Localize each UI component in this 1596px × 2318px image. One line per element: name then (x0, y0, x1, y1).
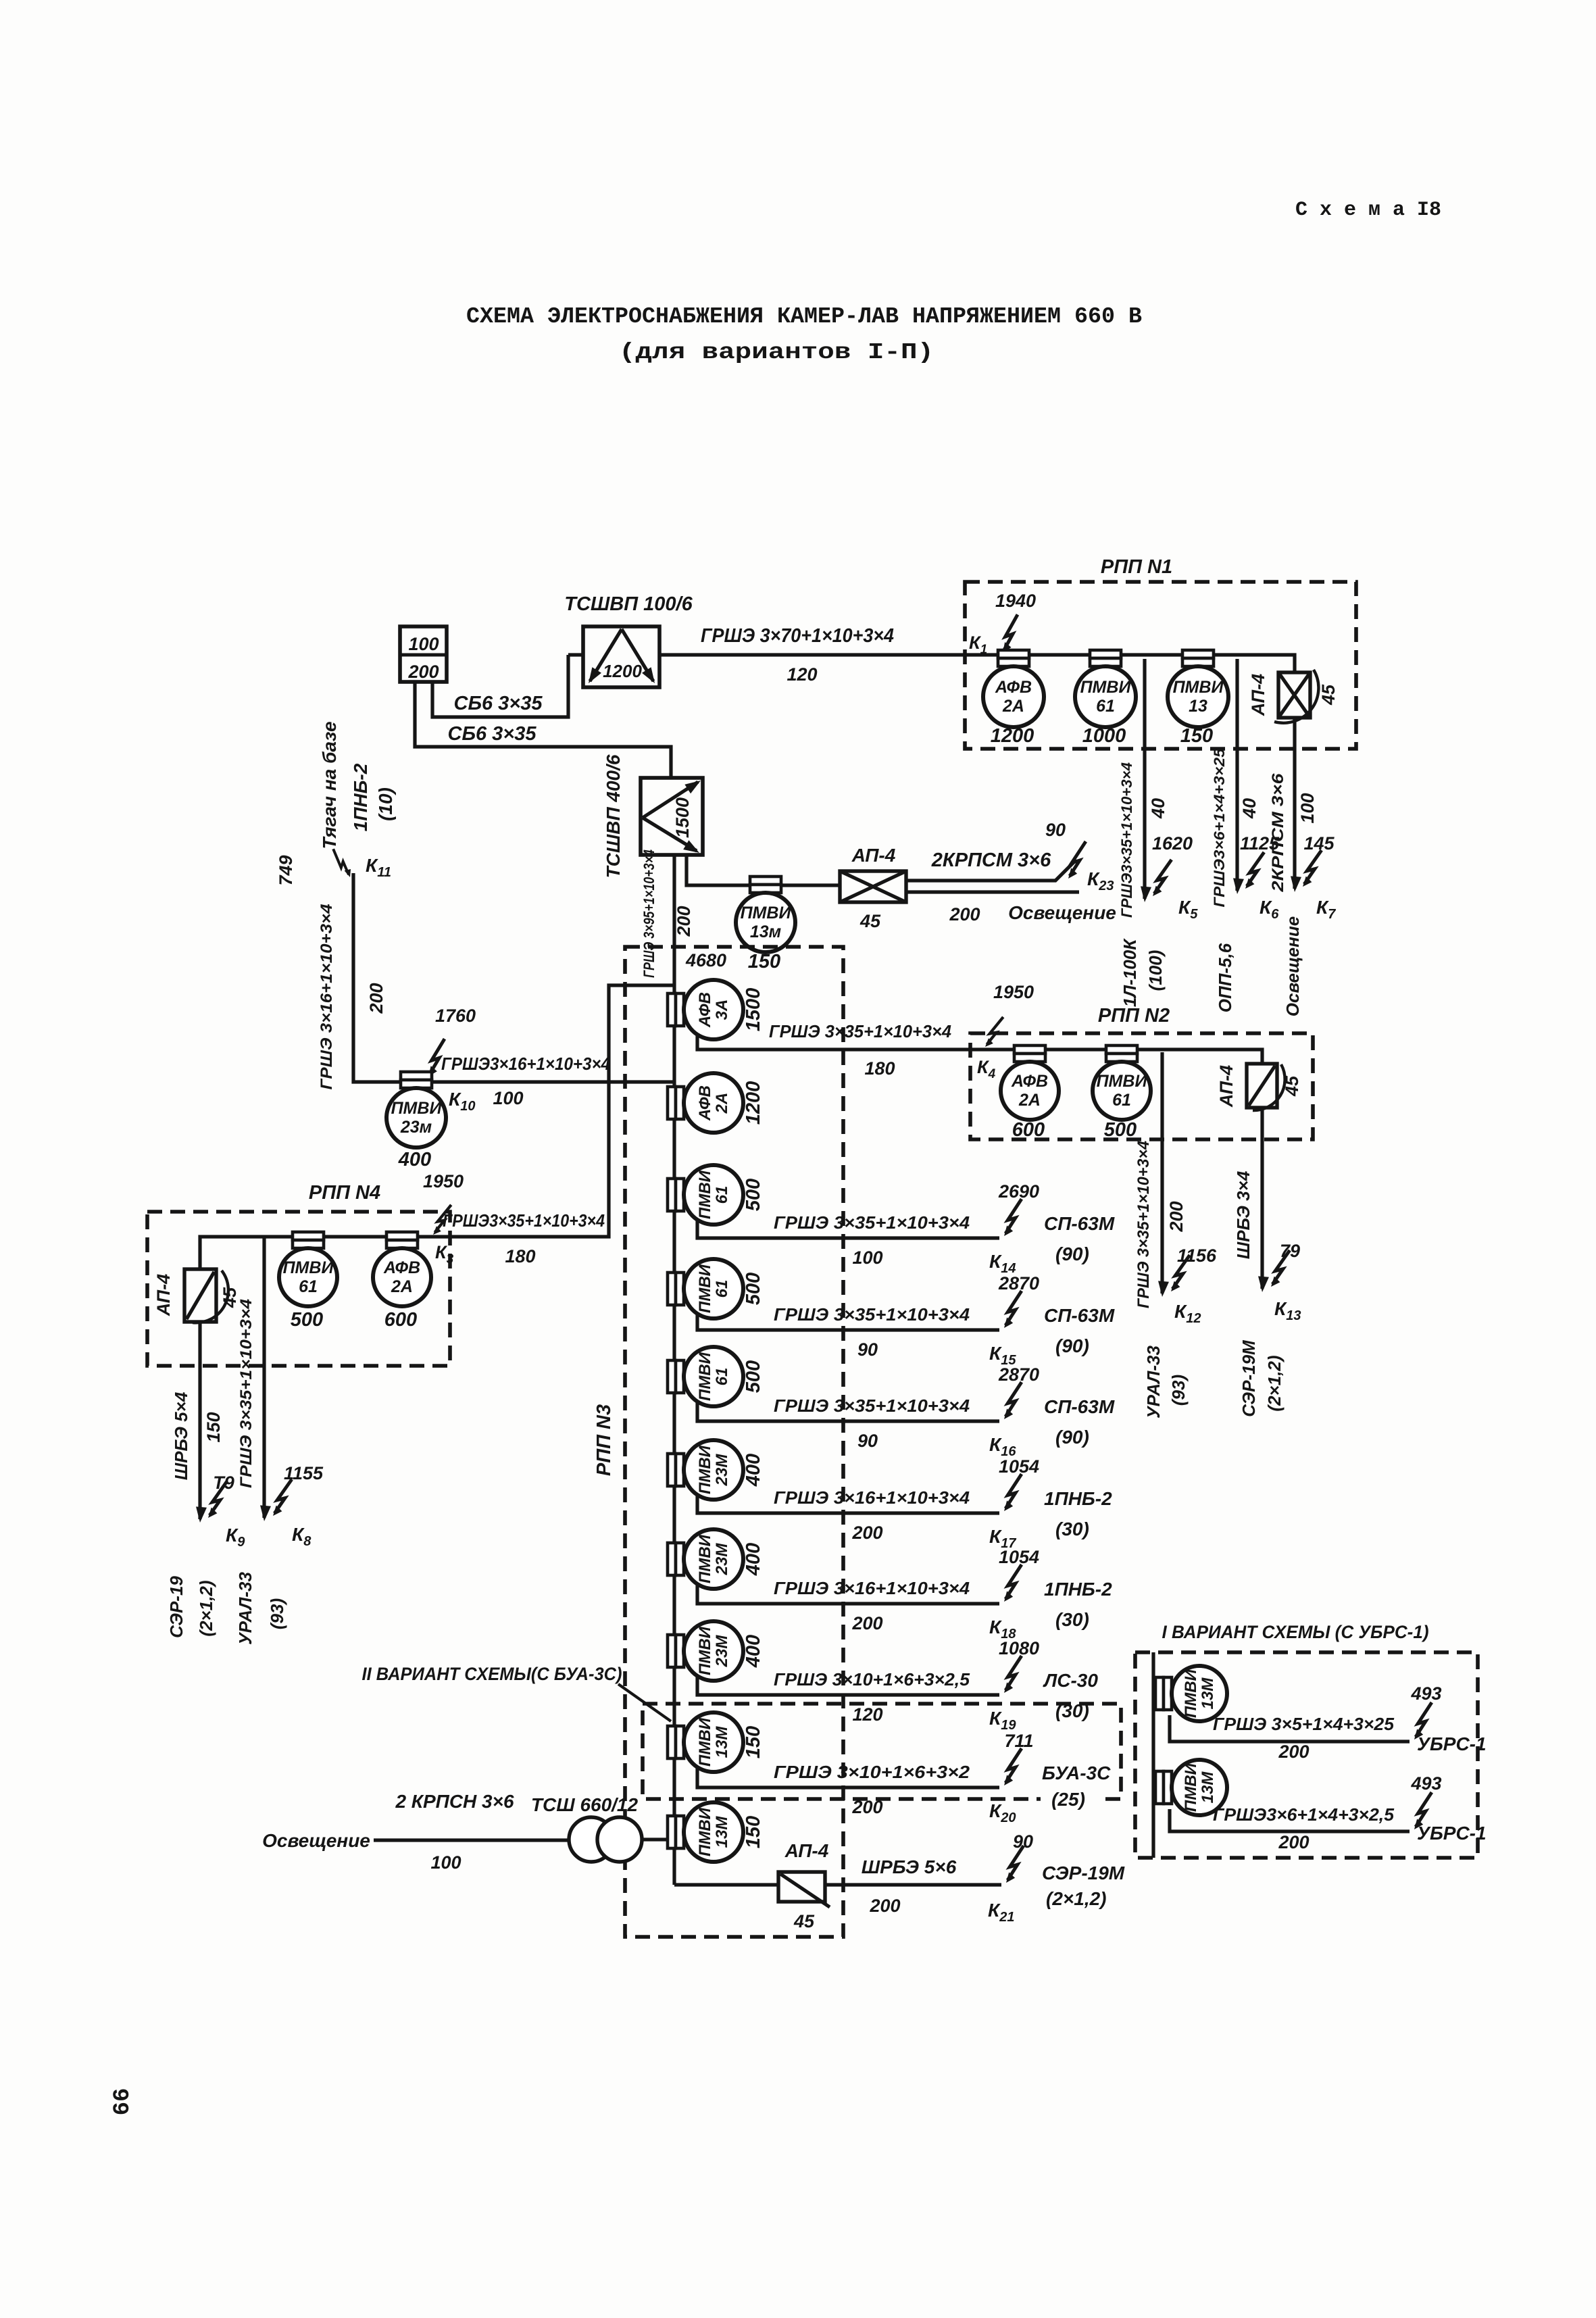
svg-text:ПМВИ: ПМВИ (696, 1807, 714, 1856)
switch ПМВИ 13 (РПП N1) (1182, 650, 1214, 658)
svg-text:(25): (25) (1051, 1789, 1085, 1810)
wire ГРШЭ 3х70 (T1 to РПП N1) (659, 653, 999, 656)
switch АФВ 3А (РПП N3 bus) (668, 993, 676, 1026)
wire СБ6 3х35 upper (box to T1) (568, 653, 583, 656)
svg-text:АП-4: АП-4 (851, 845, 896, 866)
svg-text:ГРШЭ 3×35+1×10+3×4: ГРШЭ 3×35+1×10+3×4 (774, 1212, 970, 1233)
svg-text:180: 180 (864, 1058, 895, 1079)
svg-text:ГРШЭ3×35+1×10+3×4: ГРШЭ3×35+1×10+3×4 (443, 1210, 605, 1231)
svg-text:1054: 1054 (999, 1456, 1039, 1477)
svg-text:400: 400 (743, 1543, 764, 1576)
svg-text:ГРШЭ 3×16+1×10+3×4: ГРШЭ 3×16+1×10+3×4 (774, 1487, 970, 1508)
svg-text:СЭР-19М: СЭР-19М (1239, 1339, 1259, 1417)
svg-text:РПП N3: РПП N3 (593, 1404, 615, 1476)
РПП N4 dashed enclosure (147, 1212, 450, 1366)
svg-text:ГРШЭ 3×35+1×10+3×4: ГРШЭ 3×35+1×10+3×4 (1134, 1141, 1153, 1308)
svg-text:200: 200 (851, 1613, 882, 1633)
svg-text:ГРШЭ 3×16+1×10+3×4: ГРШЭ 3×16+1×10+3×4 (318, 904, 336, 1090)
switch ПМВИ 13М a (РПП N3 bus) (668, 1726, 676, 1758)
wire feeder К5 down from ПМВИ 61 (1143, 659, 1146, 899)
РПП N3 dashed enclosure (625, 947, 843, 1937)
svg-text:90: 90 (1045, 820, 1066, 840)
svg-text:ГРШЭ 3×35+1×10+3×4: ГРШЭ 3×35+1×10+3×4 (774, 1396, 970, 1416)
svg-text:150: 150 (748, 951, 780, 972)
svg-text:180: 180 (505, 1246, 535, 1266)
wire feeder К18 from ПМВИ 23М b (697, 1583, 999, 1604)
svg-text:2А: 2А (1018, 1091, 1041, 1110)
svg-text:АФВ: АФВ (696, 992, 714, 1028)
switch ПМВИ 61 c (РПП N3 bus) (668, 1360, 676, 1393)
switch ПМВИ 13М (at T2) (750, 877, 781, 885)
svg-text:1500: 1500 (672, 797, 693, 838)
svg-text:СП-63М: СП-63М (1044, 1396, 1115, 1417)
svg-text:ТСШВП 400/6: ТСШВП 400/6 (603, 754, 624, 878)
wire К3 feeder РПП N4 to РПП N3 bus (417, 985, 673, 1237)
wire feeder К15 from ПМВИ 61 b (697, 1313, 999, 1330)
switch ПМВИ 13М b (РПП N3 bus) (668, 1816, 676, 1848)
svg-text:Освещение: Освещение (1282, 916, 1303, 1016)
svg-text:(30): (30) (1055, 1609, 1089, 1630)
svg-text:ПМВИ: ПМВИ (696, 1626, 714, 1675)
wire feeder К20 from ПМВИ 13М a (697, 1767, 999, 1787)
wire АФВ 3А feeder to РПП N2 (999, 1047, 1013, 1051)
svg-text:ГРШЭ 3×16+1×10+3×4: ГРШЭ 3×16+1×10+3×4 (774, 1578, 970, 1598)
svg-text:ЛС-30: ЛС-30 (1043, 1670, 1098, 1691)
svg-text:150: 150 (203, 1412, 224, 1442)
wire feeder К14 from ПМВИ 61 a (697, 1219, 999, 1238)
svg-text:ПМВИ: ПМВИ (696, 1170, 714, 1219)
svg-text:500: 500 (1104, 1119, 1137, 1141)
svg-text:400: 400 (398, 1149, 431, 1170)
svg-text:ПМВИ: ПМВИ (391, 1099, 443, 1118)
II вариант dashed enclosure (БУА-3С) (643, 1704, 1121, 1799)
svg-text:1Л-100К: 1Л-100К (1120, 938, 1140, 1007)
svg-text:61: 61 (299, 1277, 318, 1296)
svg-text:ПМВИ: ПМВИ (1080, 678, 1132, 697)
svg-text:200: 200 (366, 983, 386, 1014)
svg-text:РПП N2: РПП N2 (1098, 1005, 1170, 1027)
svg-text:100: 100 (408, 634, 439, 654)
svg-text:ПМВИ: ПМВИ (696, 1717, 714, 1767)
svg-text:500: 500 (743, 1179, 764, 1211)
switch ПМВИ 61 (РПП N4) (293, 1232, 324, 1240)
svg-text:(93): (93) (267, 1598, 287, 1629)
svg-text:(90): (90) (1055, 1243, 1089, 1264)
svg-text:1200: 1200 (603, 661, 642, 681)
svg-text:2КРПСМ 3×6: 2КРПСМ 3×6 (931, 849, 1051, 871)
wire СБ6 3х35 lower (box to T2) (415, 682, 671, 778)
svg-text:120: 120 (787, 664, 817, 685)
svg-text:4680: 4680 (685, 950, 726, 970)
svg-text:23м: 23м (400, 1118, 432, 1137)
svg-text:45: 45 (793, 1911, 815, 1931)
svg-text:400: 400 (743, 1454, 764, 1487)
svg-text:500: 500 (743, 1273, 764, 1305)
svg-text:СП-63М: СП-63М (1044, 1305, 1115, 1326)
svg-text:ПМВИ: ПМВИ (283, 1258, 334, 1277)
svg-text:1940: 1940 (995, 591, 1036, 611)
switch АФВ 2А (РПП N3 bus) (668, 1087, 676, 1119)
РПП N2 dashed enclosure (970, 1033, 1313, 1139)
switch АФВ 2А (РПП N1) (998, 650, 1029, 658)
svg-text:45: 45 (859, 911, 881, 931)
svg-text:Освещение: Освещение (262, 1830, 370, 1851)
svg-text:ГРШЭ3×35+1×10+3×4: ГРШЭ3×35+1×10+3×4 (1118, 762, 1135, 918)
svg-text:500: 500 (743, 1360, 764, 1393)
svg-text:АП-4: АП-4 (1248, 674, 1268, 716)
svg-text:ШРБЭ 5×4: ШРБЭ 5×4 (171, 1391, 191, 1480)
switch ПМВИ 23М a (РПП N3 bus) (668, 1454, 676, 1486)
svg-text:ПМВИ: ПМВИ (741, 904, 792, 922)
svg-text:13: 13 (1189, 697, 1207, 716)
svg-text:2690: 2690 (998, 1181, 1039, 1202)
svg-text:(2×1,2): (2×1,2) (1264, 1355, 1285, 1411)
svg-text:СБ6 3×35: СБ6 3×35 (454, 693, 543, 714)
svg-text:(для вариантов I-П): (для вариантов I-П) (619, 340, 934, 365)
svg-text:(90): (90) (1055, 1335, 1089, 1356)
svg-text:61: 61 (713, 1280, 731, 1298)
svg-text:1950: 1950 (423, 1171, 464, 1191)
svg-text:100: 100 (493, 1088, 523, 1108)
svg-text:ПМВИ: ПМВИ (696, 1264, 714, 1313)
svg-text:ГРШЭ 3×35+1×10+3×4: ГРШЭ 3×35+1×10+3×4 (774, 1304, 970, 1325)
svg-text:1ПНБ-2: 1ПНБ-2 (1044, 1579, 1112, 1600)
svg-text:13М: 13М (713, 1816, 731, 1848)
wire main bus ГРШЭ 3х95 (T2 down to РПП N3) (672, 855, 676, 1885)
wire АП-4 to switches (РПП N4) (200, 1237, 293, 1269)
svg-text:500: 500 (291, 1309, 323, 1331)
svg-text:ГРШЭ 3×70+1×10+3×4: ГРШЭ 3×70+1×10+3×4 (701, 625, 894, 647)
switch ПМВИ 61 b (РПП N3 bus) (668, 1273, 676, 1305)
svg-text:2А: 2А (713, 1093, 731, 1114)
wire hat link 2 (1120, 653, 1183, 656)
svg-text:(2×1,2): (2×1,2) (196, 1580, 216, 1636)
breaker АП-4 (РПП N2) (1247, 1064, 1277, 1108)
wire hat link 1 (1028, 653, 1091, 656)
wire ШРБЭ 5х6 (К21) (825, 1883, 1001, 1886)
svg-text:Тягач на базе: Тягач на базе (319, 721, 340, 849)
breaker АП-4 (РПП N4) (184, 1269, 216, 1322)
svg-text:1200: 1200 (743, 1081, 764, 1125)
svg-text:150: 150 (1180, 725, 1213, 747)
svg-text:90: 90 (857, 1339, 878, 1360)
svg-text:200: 200 (674, 906, 694, 937)
svg-text:2КРПСМ 3×6: 2КРПСМ 3×6 (1269, 773, 1287, 893)
svg-text:(30): (30) (1055, 1519, 1089, 1539)
svg-text:ГРШЭ 3×10+1×6+3×2,5: ГРШЭ 3×10+1×6+3×2,5 (774, 1669, 970, 1690)
wire feeder К13 down from АП-4 (РПП N2) (1260, 1108, 1264, 1289)
wire feeder К19 from ПМВИ 23М c (697, 1675, 999, 1695)
wire feeder К17 from ПМВИ 23М a (697, 1494, 999, 1513)
svg-text:1500: 1500 (743, 988, 764, 1032)
svg-text:ГРШЭ 3×35+1×10+3×4: ГРШЭ 3×35+1×10+3×4 (769, 1021, 952, 1041)
svg-text:1000: 1000 (1082, 725, 1126, 747)
svg-text:ПМВИ: ПМВИ (696, 1352, 714, 1401)
svg-text:ГРШЭ3×6+1×4+3×25: ГРШЭ3×6+1×4+3×25 (1211, 748, 1228, 908)
wire ПМВИ 13М to АП-4 (782, 883, 840, 887)
wire feeder К8 down from ПМВИ 61 (РПП N4) (262, 1237, 266, 1518)
svg-text:ГРШЭ3×16+1×10+3×4: ГРШЭ3×16+1×10+3×4 (441, 1054, 610, 1074)
svg-text:РПП N4: РПП N4 (309, 1182, 380, 1204)
svg-text:УБРС-1: УБРС-1 (1417, 1733, 1487, 1754)
wire 2 КРПСН 3х6 to ТСШ 660/12 (374, 1838, 570, 1842)
wire ПМВИ 13 to АП-4 (РПП N1) (1213, 655, 1295, 672)
switch ПМВИ 13М upper (I вариант) (1155, 1677, 1164, 1710)
wire ПМВИ 61 to АП-4 (РПП N2) (1137, 1050, 1262, 1064)
svg-text:493: 493 (1410, 1773, 1441, 1794)
svg-text:23М: 23М (713, 1454, 731, 1487)
svg-text:23М: 23М (713, 1635, 731, 1668)
svg-text:61: 61 (1096, 697, 1115, 716)
svg-text:РПП N1: РПП N1 (1101, 556, 1172, 578)
svg-text:АФВ: АФВ (995, 678, 1032, 697)
svg-text:УРАЛ-33: УРАЛ-33 (235, 1572, 255, 1645)
transformer ТСШВП 400/6 (641, 778, 703, 855)
I вариант dashed enclosure (1135, 1652, 1478, 1858)
svg-text:Освещение: Освещение (1008, 902, 1116, 923)
svg-text:600: 600 (384, 1309, 417, 1331)
svg-text:100: 100 (1297, 793, 1318, 823)
breaker АП-4 (bottom) (778, 1872, 825, 1902)
svg-text:ГРШЭ 3×35+1×10+3×4: ГРШЭ 3×35+1×10+3×4 (237, 1299, 255, 1488)
svg-text:ПМВИ: ПМВИ (1097, 1072, 1148, 1091)
svg-text:(93): (93) (1168, 1375, 1189, 1406)
svg-text:1054: 1054 (999, 1547, 1039, 1567)
svg-text:(10): (10) (375, 787, 396, 821)
svg-text:ПМВИ: ПМВИ (1182, 1669, 1200, 1718)
wire feeder К from АФВ 3А (697, 1034, 999, 1050)
svg-text:1760: 1760 (435, 1006, 476, 1026)
svg-text:493: 493 (1410, 1683, 1441, 1704)
wire К11 branch down and to bus (353, 873, 673, 1082)
svg-text:ПМВИ: ПМВИ (1182, 1762, 1200, 1812)
svg-text:1620: 1620 (1152, 833, 1193, 854)
source box 100/200 (400, 626, 447, 682)
svg-text:ШРБЭ 5×6: ШРБЭ 5×6 (862, 1856, 957, 1877)
svg-text:СБ6 3×35: СБ6 3×35 (448, 723, 537, 745)
wire feeder К7 down from АП-4 (РПП N1) (1293, 718, 1296, 889)
svg-text:СЭР-19: СЭР-19 (166, 1576, 186, 1638)
svg-text:ГРШЭ 3×5+1×4+3×25: ГРШЭ 3×5+1×4+3×25 (1213, 1714, 1395, 1734)
wire 2КРПСМ 3х6 double line to lighting (906, 860, 1076, 881)
wire hat link (РПП N2) (1045, 1047, 1107, 1051)
svg-text:АП-4: АП-4 (784, 1840, 829, 1861)
svg-text:ОПП-5,6: ОПП-5,6 (1215, 943, 1235, 1012)
switch ПМВИ 23М b (РПП N3 bus) (668, 1543, 676, 1575)
svg-text:100: 100 (852, 1248, 882, 1268)
svg-text:II ВАРИАНТ СХЕМЫ(С БУА-3С): II ВАРИАНТ СХЕМЫ(С БУА-3С) (362, 1664, 622, 1684)
svg-text:200: 200 (407, 662, 439, 682)
svg-text:40: 40 (1239, 798, 1260, 819)
svg-text:1ПНБ-2: 1ПНБ-2 (1044, 1488, 1112, 1509)
svg-text:2870: 2870 (998, 1364, 1039, 1385)
svg-text:13м: 13м (750, 922, 781, 941)
svg-text:150: 150 (743, 1726, 764, 1758)
svg-text:23М: 23М (713, 1543, 731, 1576)
svg-text:400: 400 (743, 1635, 764, 1668)
svg-text:45: 45 (1282, 1075, 1302, 1097)
svg-text:УРАЛ-33: УРАЛ-33 (1143, 1346, 1164, 1419)
svg-text:СХЕМА ЭЛЕКТРОСНАБЖЕНИЯ КАМЕР-Л: СХЕМА ЭЛЕКТРОСНАБЖЕНИЯ КАМЕР-ЛАВ НАПРЯЖЕ… (466, 304, 1142, 329)
wire УБРС-1 feeder upper (1170, 1715, 1410, 1742)
РПП N1 dashed enclosure (965, 582, 1356, 749)
wire vertical bus (I вариант) (1151, 1652, 1155, 1858)
svg-text:13М: 13М (1199, 1677, 1217, 1710)
wire feeder К9 down from АП-4 (РПП N4) (198, 1322, 201, 1519)
svg-text:1ПНБ-2: 1ПНБ-2 (350, 763, 371, 831)
transformer ТСШ 660/12 (two circles) (569, 1817, 614, 1862)
svg-text:Т9: Т9 (213, 1473, 234, 1493)
svg-text:40: 40 (1148, 798, 1168, 819)
svg-text:ГРШЭ 3×10+1×6+3×2: ГРШЭ 3×10+1×6+3×2 (774, 1762, 970, 1782)
svg-text:3А: 3А (713, 1000, 731, 1020)
wire T2 to ПМВИ 13М (687, 855, 749, 885)
svg-text:200: 200 (1278, 1832, 1309, 1852)
svg-text:711: 711 (1004, 1731, 1033, 1751)
wire bus to АП-4 (bottom) (674, 1883, 778, 1886)
svg-text:(100): (100) (1145, 950, 1166, 991)
svg-text:600: 600 (1012, 1119, 1045, 1141)
svg-text:I ВАРИАНТ СХЕМЫ (С УБРС-1): I ВАРИАНТ СХЕМЫ (С УБРС-1) (1162, 1622, 1429, 1642)
svg-text:2870: 2870 (998, 1273, 1039, 1293)
wire ТСШ to ПМВИ 13М hat (642, 1838, 668, 1841)
switch ПМВИ 61 (РПП N1) (1090, 650, 1121, 658)
svg-text:(2×1,2): (2×1,2) (1046, 1888, 1107, 1909)
svg-text:АФВ: АФВ (1011, 1072, 1048, 1091)
svg-text:ПМВИ: ПМВИ (1173, 678, 1224, 697)
svg-text:БУА-3С: БУА-3С (1042, 1762, 1111, 1783)
svg-text:ПМВИ: ПМВИ (696, 1445, 714, 1494)
svg-text:С х е м а I8: С х е м а I8 (1295, 199, 1441, 222)
svg-text:61: 61 (1112, 1091, 1131, 1110)
svg-text:200: 200 (851, 1523, 882, 1543)
wire feeder К16 from ПМВИ 61 c (697, 1401, 999, 1421)
svg-text:ШРБЭ 3×4: ШРБЭ 3×4 (1233, 1170, 1253, 1259)
wire feeder К12 down from ПМВИ 61 (РПП N2) (1160, 1052, 1164, 1293)
svg-text:100: 100 (430, 1852, 461, 1873)
svg-text:ГРШЭ 3×95+1×10+3×4: ГРШЭ 3×95+1×10+3×4 (641, 849, 657, 978)
svg-text:200: 200 (869, 1896, 900, 1916)
svg-text:АФВ: АФВ (383, 1258, 420, 1277)
svg-text:150: 150 (743, 1816, 764, 1848)
svg-text:200: 200 (949, 904, 980, 924)
switch ПМВИ 23М c (РПП N3 bus) (668, 1635, 676, 1667)
svg-text:АП-4: АП-4 (153, 1274, 174, 1316)
svg-text:(90): (90) (1055, 1427, 1089, 1448)
svg-text:200: 200 (1278, 1742, 1309, 1762)
svg-text:УБРС-1: УБРС-1 (1417, 1823, 1487, 1844)
switch АФВ 2А (РПП N2) (1014, 1045, 1045, 1054)
svg-text:200: 200 (1166, 1201, 1187, 1232)
svg-text:ТСШ 660/12: ТСШ 660/12 (531, 1794, 639, 1815)
switch АФВ 2А (РПП N4) (386, 1232, 418, 1240)
svg-text:2 КРПСН 3×6: 2 КРПСН 3×6 (395, 1791, 514, 1812)
svg-text:120: 120 (852, 1704, 882, 1725)
switch ПМВИ 61 (РПП N2) (1106, 1045, 1137, 1054)
breaker АП-4 (lighting feeder) (840, 871, 906, 902)
svg-text:1080: 1080 (999, 1638, 1039, 1658)
svg-text:45: 45 (1318, 684, 1339, 706)
svg-text:АП-4: АП-4 (1216, 1065, 1237, 1108)
svg-text:61: 61 (713, 1368, 731, 1386)
switch ПМВИ 23М (К10 branch) (401, 1072, 432, 1080)
svg-text:13М: 13М (713, 1726, 731, 1758)
switch ПМВИ 13М lower (I вариант) (1155, 1771, 1164, 1804)
transformer ТСШВП 100/6 (583, 626, 659, 687)
svg-text:1200: 1200 (991, 725, 1034, 747)
svg-text:13М: 13М (1199, 1771, 1217, 1804)
svg-text:ПМВИ: ПМВИ (696, 1534, 714, 1583)
svg-text:СП-63М: СП-63М (1044, 1213, 1115, 1234)
svg-text:СЭР-19М: СЭР-19М (1042, 1863, 1125, 1883)
svg-text:66: 66 (110, 2088, 136, 2116)
svg-text:АФВ: АФВ (696, 1085, 714, 1121)
svg-text:90: 90 (857, 1431, 878, 1451)
svg-text:ГРШЭ3×6+1×4+3×2,5: ГРШЭ3×6+1×4+3×2,5 (1213, 1804, 1395, 1825)
svg-text:749: 749 (276, 855, 296, 885)
svg-text:2А: 2А (1002, 697, 1024, 716)
wire УБРС-1 feeder lower (1170, 1809, 1410, 1831)
svg-text:1950: 1950 (993, 982, 1034, 1002)
wire feeder К6 down from ПМВИ 13 (1235, 659, 1239, 891)
switch ПМВИ 61 a (РПП N3 bus) (668, 1179, 676, 1211)
svg-text:2А: 2А (391, 1277, 413, 1296)
breaker АП-4 (РПП N1) (1278, 672, 1310, 718)
svg-text:61: 61 (713, 1186, 731, 1204)
svg-text:ТСШВП 100/6: ТСШВП 100/6 (564, 593, 693, 615)
